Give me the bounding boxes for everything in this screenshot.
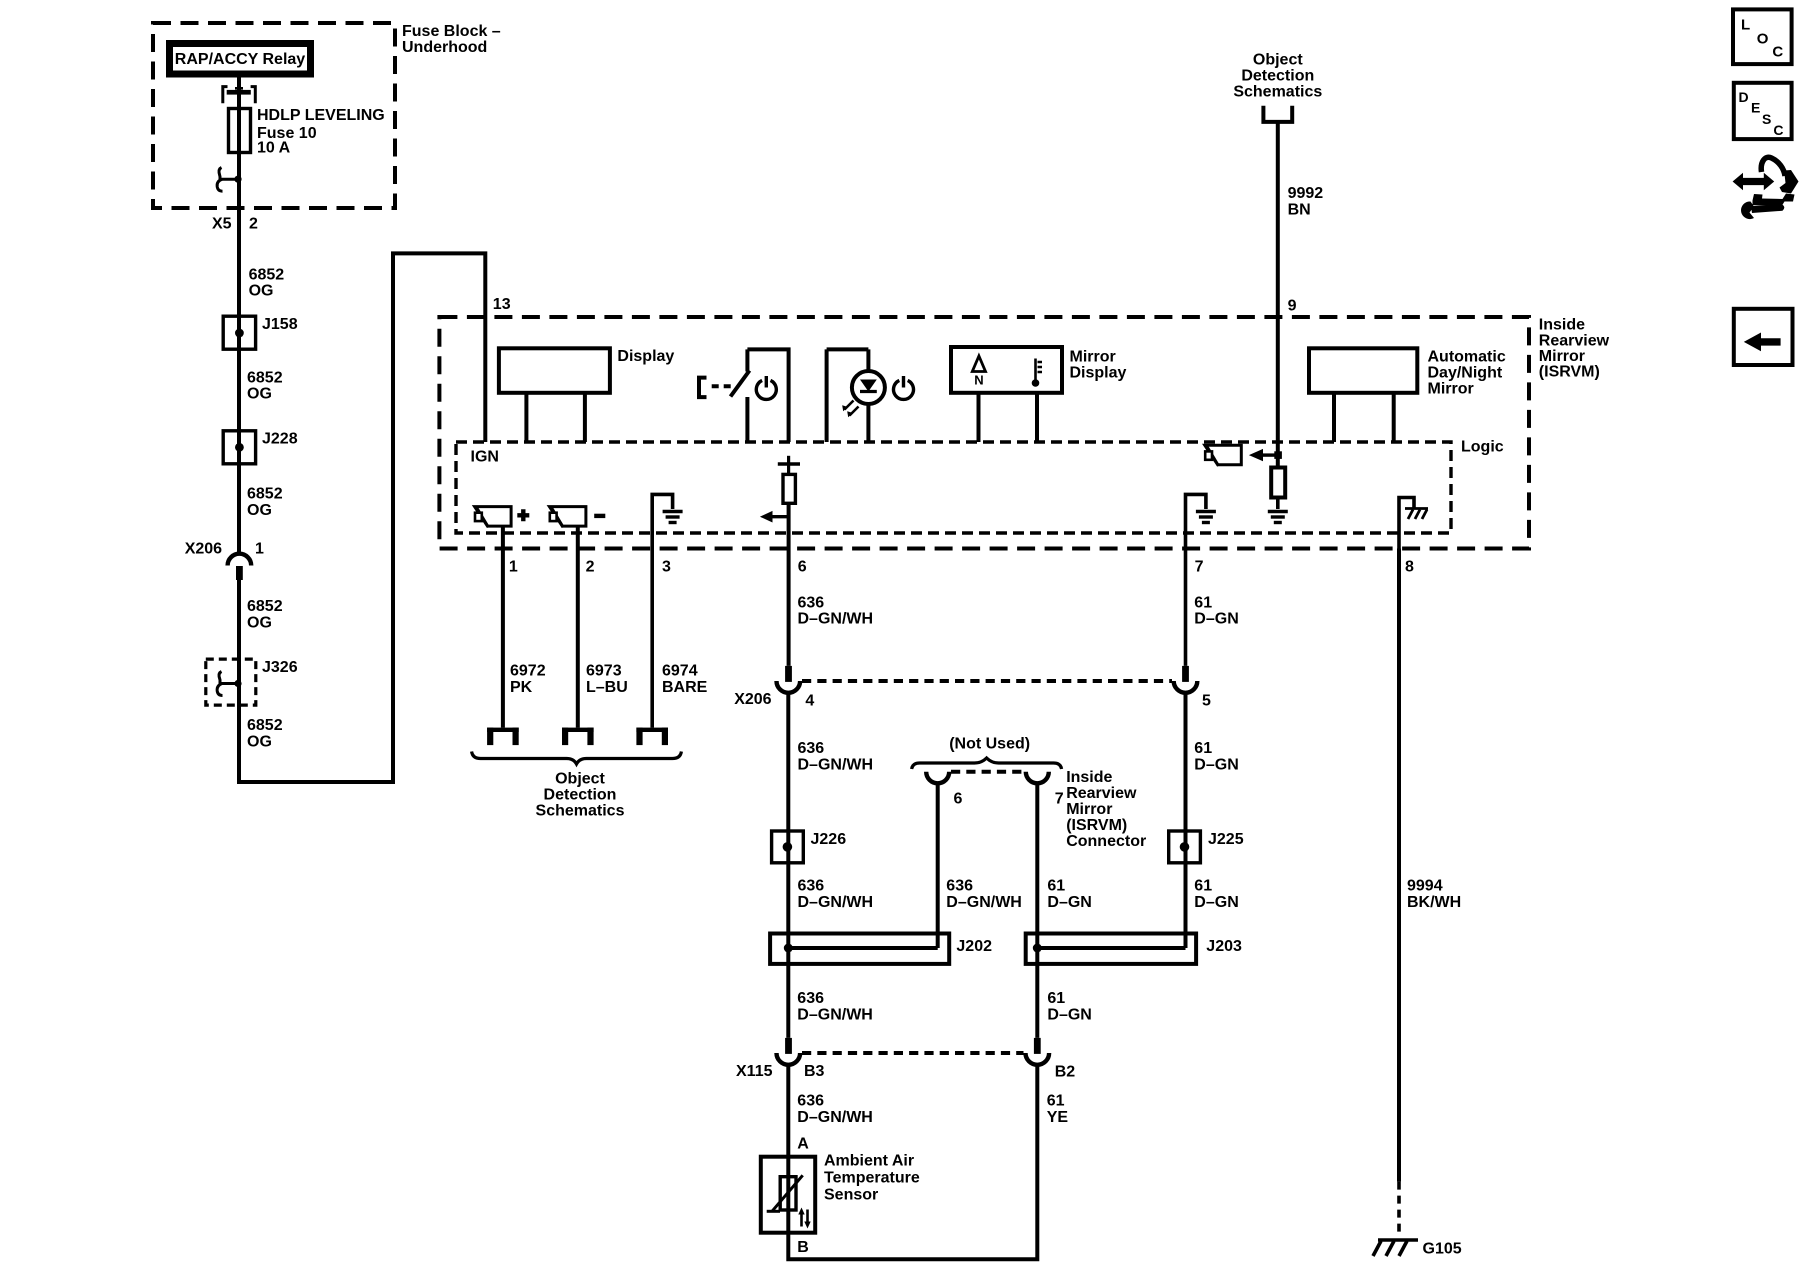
- wire 9992 BN to pin 9: [1276, 122, 1280, 468]
- svg-text:N: N: [974, 373, 983, 388]
- svg-text:Sensor: Sensor: [824, 1187, 878, 1204]
- thermistor: [780, 1177, 796, 1210]
- svg-text:D–GN: D–GN: [1194, 894, 1238, 911]
- logic inner dashed box: [456, 442, 1451, 533]
- splice J158: [223, 316, 255, 349]
- svg-text:BARE: BARE: [662, 679, 708, 696]
- svg-text:B: B: [797, 1239, 809, 1256]
- svg-text:4: 4: [805, 693, 814, 710]
- display box: [499, 348, 610, 393]
- svg-text:Display: Display: [617, 348, 674, 365]
- svg-text:Detection: Detection: [544, 787, 617, 804]
- svg-text:2: 2: [249, 216, 258, 233]
- svg-text:Inside: Inside: [1539, 317, 1585, 334]
- svg-text:Detection: Detection: [1241, 68, 1314, 85]
- svg-text:6: 6: [954, 791, 963, 808]
- dashed jumper not used: [951, 770, 1024, 774]
- svg-text:C: C: [1772, 44, 1783, 61]
- svg-text:Mirror: Mirror: [1066, 801, 1112, 818]
- svg-text:J228: J228: [262, 431, 298, 448]
- splice J225: [1169, 831, 1201, 863]
- off-page connector bracket: [1263, 106, 1292, 122]
- connector X206 pin 5: [1182, 666, 1189, 682]
- wire labels row 4: [797, 990, 1092, 1024]
- pin 6 supply tick and resistor: [787, 456, 790, 475]
- wire pin 1: [501, 526, 505, 728]
- svg-text:Connector: Connector: [1066, 833, 1146, 850]
- svg-text:J225: J225: [1208, 831, 1244, 848]
- wire labels 636 D-GN/WH and 61 D-GN (row 1): [798, 595, 1239, 628]
- svg-text:OG: OG: [247, 386, 272, 403]
- switch connector bracket and dashes: [699, 378, 707, 398]
- automatic day/night mirror box: [1309, 348, 1417, 393]
- svg-text:L: L: [1741, 17, 1750, 34]
- LOC icon box: [1733, 9, 1792, 64]
- ground symbol pin 9: [1268, 512, 1288, 523]
- connector ISRVM pin 6 (not used): [926, 772, 949, 784]
- svg-text:3: 3: [662, 559, 671, 576]
- splice pack J203: [1026, 934, 1196, 964]
- brace object detection: [472, 752, 682, 765]
- svg-text:9: 9: [1288, 298, 1297, 315]
- svg-text:X5: X5: [212, 216, 232, 233]
- wire from not-used 7: [1035, 783, 1039, 1038]
- svg-text:OG: OG: [247, 734, 272, 751]
- connector X206 pin 4: [785, 666, 792, 682]
- signal arrow pin 6: [771, 515, 789, 518]
- dashed jumper X206: [802, 679, 1172, 683]
- fuse block label: [402, 23, 501, 56]
- svg-text:13: 13: [493, 296, 511, 313]
- svg-text:Fuse Block –: Fuse Block –: [402, 23, 501, 40]
- power icon (switch): [756, 380, 776, 399]
- svg-text:636: 636: [798, 878, 825, 895]
- minus sign: [594, 514, 605, 518]
- svg-text:636: 636: [798, 595, 825, 612]
- svg-text:G105: G105: [1423, 1241, 1462, 1258]
- svg-text:6974: 6974: [662, 663, 698, 680]
- DESC icon box: [1734, 83, 1792, 139]
- resistor pin 9: [1271, 468, 1285, 498]
- ISRVM connector label: [1066, 769, 1146, 850]
- mirror display box: [951, 347, 1062, 393]
- svg-text:Mirror: Mirror: [1070, 349, 1116, 366]
- terminal connector pin 3: [636, 728, 668, 746]
- svg-text:Schematics: Schematics: [1233, 84, 1322, 101]
- ambient air temperature sensor box: [761, 1157, 815, 1233]
- svg-text:6972: 6972: [510, 663, 546, 680]
- wire pin 2: [576, 526, 580, 728]
- svg-text:A: A: [797, 1136, 809, 1153]
- svg-text:Mirror: Mirror: [1428, 381, 1474, 398]
- svg-text:10 A: 10 A: [257, 140, 291, 157]
- svg-text:61: 61: [1047, 1093, 1065, 1110]
- svg-text:7: 7: [1055, 791, 1064, 808]
- svg-text:Logic: Logic: [1461, 439, 1504, 456]
- connector X115 pin B2: [1034, 1038, 1041, 1054]
- svg-text:Object: Object: [555, 771, 605, 788]
- svg-text:Automatic: Automatic: [1428, 349, 1506, 366]
- wire 9994 BK/WH: [1397, 549, 1401, 1182]
- svg-text:D–GN: D–GN: [1047, 1007, 1091, 1024]
- object detection schematics label (bottom): [536, 771, 625, 820]
- fuse holder clips: [223, 87, 256, 104]
- svg-text:6852: 6852: [247, 486, 283, 503]
- switch contact hook in fuse block: [217, 168, 239, 192]
- svg-text:OG: OG: [247, 615, 272, 632]
- fuse block underhood dashed box: [153, 23, 395, 208]
- up-down arrows: [798, 1208, 810, 1229]
- ground symbol pin 7 and wire: [1186, 494, 1206, 666]
- wire pin 6 below X206: [786, 693, 790, 1038]
- svg-text:OG: OG: [249, 283, 274, 300]
- power switch symbol: [731, 349, 789, 442]
- svg-text:C: C: [1773, 122, 1783, 138]
- svg-text:D–GN/WH: D–GN/WH: [798, 611, 874, 628]
- ground symbol pin 3 and wire: [652, 494, 672, 727]
- svg-text:RAP/ACCY Relay: RAP/ACCY Relay: [175, 51, 306, 68]
- svg-text:B2: B2: [1055, 1064, 1076, 1081]
- wire sensor B to X115 B2: [788, 1065, 1037, 1260]
- terminal connector pin 1: [487, 728, 519, 746]
- brace not used: [912, 758, 1062, 769]
- splice pack J202: [770, 934, 949, 964]
- ISRVM label: [1539, 317, 1610, 381]
- thermometer icon: [1036, 359, 1043, 381]
- svg-text:1: 1: [255, 541, 264, 558]
- svg-text:6973: 6973: [586, 663, 622, 680]
- driver symbol pin 2: [549, 507, 586, 528]
- svg-text:D–GN/WH: D–GN/WH: [797, 1007, 873, 1024]
- switch contact hook in J326: [217, 672, 239, 696]
- mirror display legs: [979, 393, 1038, 442]
- dashed jumper X115: [802, 1051, 1024, 1055]
- wire pin 6 down from resistor: [787, 503, 791, 666]
- svg-text:(ISRVM): (ISRVM): [1066, 817, 1127, 834]
- driver symbol pin 9: [1205, 445, 1242, 466]
- display legs: [526, 393, 585, 442]
- svg-text:X206: X206: [734, 691, 771, 708]
- svg-text:D–GN/WH: D–GN/WH: [797, 1109, 873, 1126]
- svg-text:IGN: IGN: [471, 449, 499, 466]
- svg-text:PK: PK: [510, 679, 533, 696]
- svg-text:Mirror: Mirror: [1539, 348, 1585, 365]
- svg-text:9992: 9992: [1288, 185, 1324, 202]
- svg-text:BK/WH: BK/WH: [1407, 894, 1461, 911]
- svg-text:6852: 6852: [247, 598, 283, 615]
- wire labels row 3: [798, 878, 1239, 912]
- wire from not-used 6: [936, 783, 940, 948]
- svg-text:61: 61: [1194, 740, 1212, 757]
- svg-text:D–GN/WH: D–GN/WH: [946, 894, 1022, 911]
- svg-text:Temperature: Temperature: [824, 1170, 920, 1187]
- svg-text:OG: OG: [247, 502, 272, 519]
- svg-text:636: 636: [797, 990, 824, 1007]
- svg-text:6: 6: [798, 559, 807, 576]
- svg-text:61: 61: [1194, 878, 1212, 895]
- svg-text:(Not Used): (Not Used): [949, 736, 1030, 753]
- svg-text:61: 61: [1047, 878, 1065, 895]
- svg-text:6852: 6852: [247, 717, 283, 734]
- svg-text:D–GN: D–GN: [1194, 611, 1238, 628]
- svg-text:D: D: [1739, 89, 1749, 105]
- svg-text:S: S: [1762, 111, 1771, 127]
- wire pin 7 below X206: [1184, 693, 1188, 948]
- svg-text:J203: J203: [1206, 938, 1242, 955]
- LED emission arrows: [842, 401, 858, 418]
- LED indicator: [827, 349, 885, 442]
- svg-text:J158: J158: [262, 316, 298, 333]
- svg-text:BN: BN: [1288, 202, 1311, 219]
- svg-text:E: E: [1751, 100, 1760, 116]
- relay RAP/ACCY box: [170, 44, 311, 75]
- svg-text:J226: J226: [811, 831, 847, 848]
- compass icon: [972, 356, 985, 372]
- svg-text:61: 61: [1194, 595, 1212, 612]
- wire labels row 5: [797, 1093, 1068, 1127]
- svg-text:9994: 9994: [1407, 878, 1443, 895]
- svg-text:HDLP LEVELING: HDLP LEVELING: [257, 107, 385, 124]
- back arrow icon box: [1734, 309, 1793, 365]
- terminal connector pin 2: [562, 728, 594, 746]
- connector ISRVM pin 7 (not used): [1026, 772, 1049, 784]
- connector X115 pin B3: [785, 1038, 792, 1054]
- svg-text:8: 8: [1405, 559, 1414, 576]
- wire labels row 2: [798, 740, 1239, 774]
- svg-text:D–GN/WH: D–GN/WH: [798, 894, 874, 911]
- svg-text:X115: X115: [736, 1063, 773, 1080]
- ISRVM outer dashed box: [439, 317, 1529, 549]
- svg-text:D–GN/WH: D–GN/WH: [798, 757, 874, 774]
- wire into sensor: [786, 1065, 790, 1177]
- svg-text:YE: YE: [1047, 1109, 1069, 1126]
- svg-text:Schematics: Schematics: [536, 803, 625, 820]
- splice J326 dashed box: [206, 659, 256, 705]
- svg-text:Ambient Air: Ambient Air: [824, 1153, 914, 1170]
- svg-text:5: 5: [1202, 693, 1211, 710]
- signal arrow pin 9: [1262, 453, 1278, 456]
- ground G105: [1373, 1240, 1418, 1256]
- svg-text:1: 1: [509, 559, 518, 576]
- svg-text:X206: X206: [185, 541, 222, 558]
- svg-text:6852: 6852: [249, 267, 285, 284]
- svg-text:O: O: [1757, 31, 1769, 48]
- svg-text:D–GN: D–GN: [1194, 757, 1238, 774]
- splice J226: [772, 831, 804, 863]
- wire labels 6972 PK / 6973 L-BU / 6974 BARE: [510, 663, 708, 697]
- svg-text:Day/Night: Day/Night: [1428, 365, 1503, 382]
- svg-text:636: 636: [946, 878, 973, 895]
- svg-text:L–BU: L–BU: [586, 679, 628, 696]
- svg-text:7: 7: [1195, 559, 1204, 576]
- chassis ground pin 8: [1399, 498, 1414, 549]
- driver symbol pin 1: [475, 507, 512, 528]
- svg-text:Underhood: Underhood: [402, 39, 487, 56]
- splice J228: [223, 431, 255, 464]
- auto mirror legs: [1334, 393, 1394, 442]
- svg-text:Rearview: Rearview: [1539, 333, 1610, 350]
- svg-text:6852: 6852: [247, 370, 283, 387]
- svg-text:Rearview: Rearview: [1066, 785, 1137, 802]
- wire relay output: [237, 77, 241, 554]
- plus sign: [517, 509, 529, 521]
- svg-text:Display: Display: [1070, 365, 1127, 382]
- power icon (LED): [894, 380, 914, 399]
- object detection schematics label: [1233, 52, 1322, 101]
- svg-text:61: 61: [1047, 990, 1065, 1007]
- svg-text:636: 636: [797, 1093, 824, 1110]
- svg-text:(ISRVM): (ISRVM): [1539, 364, 1600, 381]
- svg-text:B3: B3: [804, 1063, 825, 1080]
- svg-text:2: 2: [586, 559, 595, 576]
- fuse HDLP LEVELING Fuse 10 10A: [229, 109, 251, 153]
- svg-text:J326: J326: [262, 659, 298, 676]
- svg-text:J202: J202: [956, 938, 992, 955]
- svg-text:Inside: Inside: [1066, 769, 1112, 786]
- svg-text:Object: Object: [1253, 52, 1303, 69]
- diagnostic icon (arrows and wrench): [1733, 157, 1799, 219]
- svg-text:636: 636: [798, 740, 825, 757]
- wire from X206-1 down, right, up to pin 13 entry: [239, 253, 485, 782]
- svg-text:D–GN: D–GN: [1047, 894, 1091, 911]
